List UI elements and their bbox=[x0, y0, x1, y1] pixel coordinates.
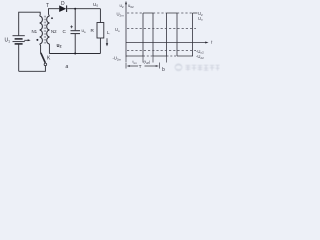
square wave bottom dashed under pulses bbox=[143, 55, 177, 57]
svg-text:Uo: Uo bbox=[198, 16, 203, 22]
svg-text:C: C bbox=[63, 29, 67, 34]
polarity dot primary bbox=[36, 39, 38, 41]
svg-text:R: R bbox=[91, 28, 95, 33]
watermark text strokes bbox=[186, 65, 220, 70]
capacitor C plus sign bbox=[70, 25, 73, 28]
watermark logo circle bbox=[175, 64, 182, 71]
wire: capacitor bottom lead bbox=[74, 34, 76, 54]
svg-text:N1: N1 bbox=[32, 29, 38, 34]
svg-text:uo: uo bbox=[82, 28, 86, 34]
node junction at capacitor top bbox=[74, 8, 76, 10]
svg-text:U1: U1 bbox=[5, 38, 11, 44]
svg-text:K: K bbox=[47, 56, 51, 62]
dashed level top Uim bbox=[127, 12, 193, 14]
wire: primary top rail bbox=[19, 12, 41, 35]
wire: secondary top to diode bbox=[49, 9, 60, 16]
wire: diode to output top bbox=[67, 8, 100, 10]
wire: primary winding to switch bbox=[39, 44, 42, 53]
diode D triangle bbox=[59, 5, 66, 12]
node junction at capacitor bottom bbox=[74, 53, 76, 55]
svg-text:-U2m: -U2m bbox=[113, 56, 122, 62]
dashed level mid Uo bbox=[127, 27, 196, 29]
svg-text:ton: ton bbox=[133, 60, 138, 65]
capacitor C plate bottom bbox=[71, 33, 81, 35]
output voltage arrow bbox=[106, 38, 108, 44]
axis: vertical u axis with arrow bbox=[125, 3, 127, 57]
battery U1 plate - thick 2 bbox=[15, 43, 23, 45]
wire: resistor bottom lead bbox=[99, 38, 101, 54]
square wave u2 solid tops bbox=[143, 12, 198, 14]
svg-text:D: D bbox=[61, 1, 65, 7]
svg-text:Uo: Uo bbox=[93, 2, 98, 8]
svg-text:U2m: U2m bbox=[117, 12, 125, 18]
dashed level -Uo2 bbox=[127, 50, 196, 52]
switch K terminal circle bbox=[44, 63, 47, 66]
svg-text:a: a bbox=[66, 64, 69, 70]
resistor RL box bbox=[97, 23, 104, 39]
switch K blade bbox=[41, 53, 46, 63]
annotation period T arrows bbox=[128, 65, 158, 67]
wire: primary bottom rail bbox=[19, 66, 46, 72]
wire: capacitor top lead bbox=[74, 9, 76, 31]
polarity dot secondary bbox=[51, 17, 53, 19]
svg-text:Uo: Uo bbox=[115, 27, 120, 33]
battery U1 plate + long 2 bbox=[13, 41, 25, 43]
transformer T core line 1 bbox=[43, 16, 45, 44]
wire: secondary bottom lead bbox=[48, 44, 50, 54]
battery U1 plate + long bbox=[13, 35, 25, 37]
square wave vertical edges bbox=[143, 13, 193, 56]
wire: battery bottom down bbox=[18, 44, 20, 71]
diode D cathode bar bbox=[66, 5, 68, 12]
current direction arrow at battery bbox=[24, 39, 28, 41]
wire: secondary bottom rail bbox=[49, 53, 100, 55]
svg-text:T: T bbox=[139, 64, 142, 70]
annotation period T ticks bbox=[126, 63, 160, 69]
svg-text:-U22: -U22 bbox=[196, 54, 204, 60]
wire: output right drop bbox=[99, 9, 101, 23]
transformer T primary winding N1 bbox=[40, 16, 43, 44]
waveform diagram b bbox=[125, 1, 209, 69]
capacitor C plate top bbox=[71, 30, 81, 32]
axis: time t with arrow bbox=[126, 42, 206, 44]
svg-text:(toff): (toff) bbox=[144, 60, 151, 65]
transformer T secondary winding N2 bbox=[47, 16, 50, 44]
svg-text:b: b bbox=[162, 67, 165, 73]
svg-text:L,: L, bbox=[107, 30, 110, 35]
svg-text:u02: u02 bbox=[128, 3, 134, 9]
svg-text:N2: N2 bbox=[51, 29, 57, 34]
svg-text:t: t bbox=[211, 40, 213, 45]
svg-text:u2: u2 bbox=[120, 3, 124, 9]
svg-text:T: T bbox=[46, 3, 49, 9]
square wave bottom solid bbox=[126, 55, 193, 57]
transformer T core line 2 bbox=[44, 16, 46, 44]
annotation ticks ton/toff bbox=[126, 56, 167, 63]
battery U1 plate - thick bbox=[15, 38, 23, 40]
svg-text:u2: u2 bbox=[57, 43, 62, 49]
